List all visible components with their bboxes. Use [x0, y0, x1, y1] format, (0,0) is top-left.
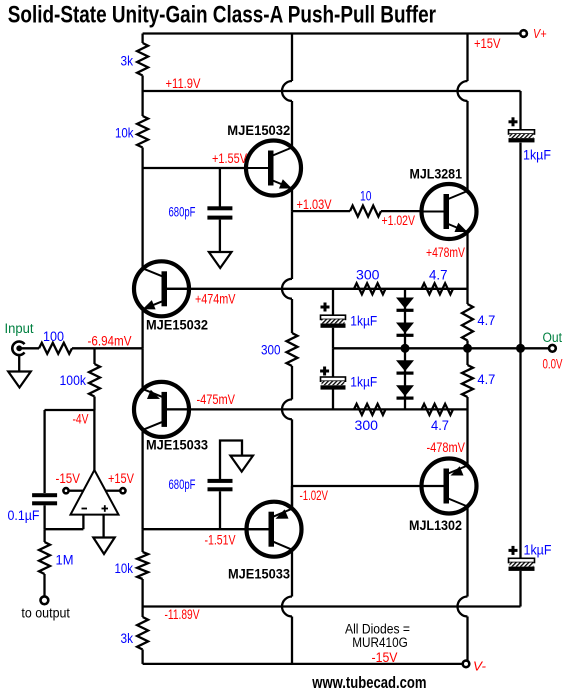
transistor Q2 MJE15032 middle npn — [134, 261, 189, 316]
wire cap column — [332, 328, 334, 349]
wire plus input to ground — [102, 515, 104, 538]
svg-text:-1.02V: -1.02V — [300, 488, 329, 503]
wire second vertical top — [291, 34, 293, 82]
resistor R 100 — [39, 343, 72, 354]
transistor Q3 MJE15033 middle pnp — [134, 382, 189, 437]
resistor R 10k top — [137, 116, 148, 148]
svg-text:0.1µF: 0.1µF — [8, 508, 40, 523]
svg-text:-15V: -15V — [56, 471, 81, 486]
diode D1 — [396, 298, 414, 309]
wire input node to Q3 emitter — [141, 348, 143, 389]
resistor R 100k — [89, 364, 100, 397]
svg-text:MJL3281: MJL3281 — [410, 167, 463, 182]
svg-text:MJL1302: MJL1302 — [409, 518, 462, 533]
resistor R 3k bottom — [137, 617, 148, 650]
terminal to output — [41, 596, 49, 604]
diode D4 — [396, 385, 414, 396]
wire -4V link — [45, 409, 95, 411]
wire Q4 emitter up — [291, 486, 293, 509]
op-amp U1 — [71, 470, 119, 515]
wire MJL3281 emitter down — [466, 232, 468, 304]
svg-text:100k: 100k — [60, 373, 87, 388]
wire 100 to input node — [72, 347, 143, 349]
wire down to 1M — [43, 529, 45, 542]
hop over +11.9V — [282, 81, 292, 101]
svg-text:4.7: 4.7 — [477, 313, 495, 328]
svg-text:-4V: -4V — [73, 412, 89, 427]
transistor Q5 MJL3281 — [422, 184, 477, 239]
svg-text:+15V: +15V — [108, 471, 134, 486]
wire cap column lower — [332, 390, 334, 410]
wire Q4 collector down — [291, 550, 293, 597]
hop over -11.89V left — [282, 597, 292, 617]
wire 1M to terminal — [43, 574, 45, 596]
svg-text:Solid-State Unity-Gain Class-A: Solid-State Unity-Gain Class-A Push-Pull… — [8, 2, 436, 29]
wire left rail top segment — [141, 34, 143, 44]
svg-text:+478mV: +478mV — [426, 245, 465, 260]
ground bottom 680pF — [230, 456, 253, 472]
capacitor C 1kuF top right — [509, 120, 518, 123]
svg-text:300: 300 — [261, 343, 281, 358]
resistor R 10 — [350, 206, 381, 217]
wire -4V to cap — [43, 410, 45, 493]
resistor R 300 row2 — [354, 404, 386, 415]
wire 680pF bottom jog — [220, 441, 242, 480]
svg-text:1M: 1M — [56, 553, 74, 568]
wire +11.9V line — [143, 90, 521, 92]
wire output line — [333, 347, 549, 349]
svg-text:100: 100 — [43, 329, 64, 344]
wire 100k drop — [93, 348, 95, 364]
capacitor C 680pF bottom — [208, 479, 233, 483]
hop over -11.89V right — [458, 597, 468, 617]
wire left rail lower — [141, 529, 143, 552]
svg-text:1kµF: 1kµF — [350, 375, 377, 390]
wire jack to ground — [18, 355, 20, 372]
wire left rail — [141, 76, 143, 117]
wire right rail — [519, 143, 521, 559]
svg-text:to output: to output — [21, 606, 70, 621]
wire -11.89V line — [143, 605, 521, 607]
input jack — [12, 342, 24, 356]
wire -1.02V line — [292, 485, 446, 487]
junction dot diode mid — [401, 344, 410, 353]
svg-text:+15V: +15V — [474, 36, 501, 51]
wire left rail — [141, 148, 143, 269]
svg-text:4.7: 4.7 — [477, 372, 495, 387]
op-amp right power terminal — [120, 488, 125, 493]
svg-text:+474mV: +474mV — [195, 292, 236, 307]
ground opamp plus — [93, 538, 114, 555]
wire 680pF bottom to -1.51V — [219, 491, 221, 529]
wire right rail lower — [519, 571, 521, 607]
svg-text:680pF: 680pF — [169, 205, 196, 220]
resistor R 1M — [39, 542, 50, 574]
wire row1 +474mV line — [167, 288, 468, 290]
svg-text:3k: 3k — [121, 631, 134, 646]
resistor R 4.7 vertical bottom — [462, 365, 473, 397]
svg-text:+1.03V: +1.03V — [297, 197, 332, 212]
wire jack to 100 — [21, 347, 39, 349]
svg-text:0.0V: 0.0V — [543, 357, 563, 372]
wire 100k to -4V node — [93, 397, 95, 411]
resistor R 10k bottom — [137, 552, 148, 579]
svg-text:+1.55V: +1.55V — [212, 151, 247, 166]
wire -1.51V line — [143, 528, 269, 530]
svg-text:10k: 10k — [115, 126, 134, 141]
op-amp left power terminal — [63, 488, 68, 493]
capacitor C 1kuF mid bottom — [320, 370, 329, 373]
ground top 680pF — [209, 252, 232, 268]
hop over row1 — [282, 279, 292, 299]
wire second vertical mid — [291, 211, 293, 279]
terminal V- — [463, 661, 470, 668]
resistor R 4.7 row2 — [422, 404, 454, 415]
wire 680pF top tap — [219, 168, 221, 207]
svg-text:4.7: 4.7 — [429, 268, 448, 283]
svg-text:-478mV: -478mV — [427, 440, 466, 455]
terminal Out — [549, 345, 556, 352]
op-amp plus mark — [102, 508, 109, 510]
svg-text:-15V: -15V — [372, 650, 398, 665]
svg-text:V+: V+ — [533, 26, 547, 41]
wire bottom rail — [143, 663, 463, 665]
svg-text:-1.51V: -1.51V — [205, 533, 236, 548]
resistor R 3k top — [137, 43, 148, 76]
wire minus link — [45, 528, 84, 530]
terminal V+ — [520, 30, 527, 37]
svg-text:MJE15033: MJE15033 — [146, 438, 208, 453]
svg-text:10: 10 — [360, 189, 372, 204]
svg-text:1kµF: 1kµF — [350, 314, 377, 329]
svg-text:www.tubecad.com: www.tubecad.com — [312, 673, 427, 692]
wire right rail upper — [519, 91, 521, 130]
wire diode column — [404, 289, 406, 410]
svg-text:-11.89V: -11.89V — [165, 607, 200, 622]
svg-text:+11.9V: +11.9V — [166, 76, 201, 91]
svg-text:3k: 3k — [121, 54, 134, 69]
hop over row2 — [282, 399, 292, 419]
resistor R 4.7 row1 — [422, 283, 454, 294]
wire MJL1302 collector down — [466, 507, 468, 597]
transistor Q4 MJE15033 bottom driver — [247, 502, 302, 557]
capacitor C 1kuF bottom right — [509, 549, 518, 552]
wire Q2 emitter to input node — [141, 309, 143, 348]
wire top +15V rail — [143, 32, 521, 34]
svg-text:MJE15033: MJE15033 — [228, 567, 290, 582]
svg-text:-475mV: -475mV — [197, 392, 236, 407]
svg-text:+1.02V: +1.02V — [382, 213, 416, 228]
svg-text:MJE15032: MJE15032 — [146, 318, 208, 333]
wire minus input down — [82, 515, 84, 530]
svg-text:MUR410G: MUR410G — [352, 635, 408, 650]
wire +1.03V line — [292, 210, 350, 212]
wire third vertical top — [466, 34, 468, 82]
wire row2 -475mV line — [167, 408, 468, 410]
hop over +11.9V right — [458, 81, 468, 101]
junction dot out2 — [516, 344, 525, 353]
svg-text:1kµF: 1kµF — [523, 148, 551, 163]
ground input — [8, 372, 31, 388]
op-amp minus mark — [82, 508, 88, 510]
capacitor C 680pF top — [207, 206, 232, 210]
wire 680pF top to ground — [219, 220, 221, 252]
wire cap column upper — [332, 289, 334, 315]
svg-text:680pF: 680pF — [169, 477, 196, 492]
diode D3 — [396, 360, 414, 371]
wire Q3 collector down — [141, 430, 143, 529]
svg-text:300: 300 — [355, 418, 379, 433]
svg-text:Out: Out — [543, 330, 563, 345]
wire cap to minus link — [43, 505, 45, 529]
junction dot out1 — [463, 344, 472, 353]
diode D2 — [396, 323, 414, 334]
transistor Q6 MJL1302 — [422, 459, 477, 514]
svg-text:MJE15032: MJE15032 — [227, 123, 290, 138]
svg-text:4.7: 4.7 — [431, 418, 449, 433]
wire Q1 emitter down — [291, 189, 293, 212]
wire +1.55V line — [143, 167, 268, 169]
svg-text:Input: Input — [5, 321, 34, 336]
svg-text:V-: V- — [473, 659, 487, 674]
capacitor C 1kuF mid top — [321, 306, 330, 309]
svg-text:300: 300 — [356, 268, 380, 283]
transistor Q1 MJE15032 top driver — [246, 141, 301, 196]
wire opamp output up — [93, 410, 95, 470]
resistor R 300 vertical — [287, 333, 298, 366]
resistor R 4.7 vertical top — [462, 304, 473, 341]
resistor R 300 row1 — [354, 283, 386, 294]
svg-text:10k: 10k — [115, 561, 134, 576]
capacitor C 0.1uF — [32, 493, 57, 497]
svg-text:1kµF: 1kµF — [524, 543, 552, 558]
svg-text:-6.94mV: -6.94mV — [88, 334, 132, 349]
wire 10 to MJL3281 base — [381, 210, 446, 212]
